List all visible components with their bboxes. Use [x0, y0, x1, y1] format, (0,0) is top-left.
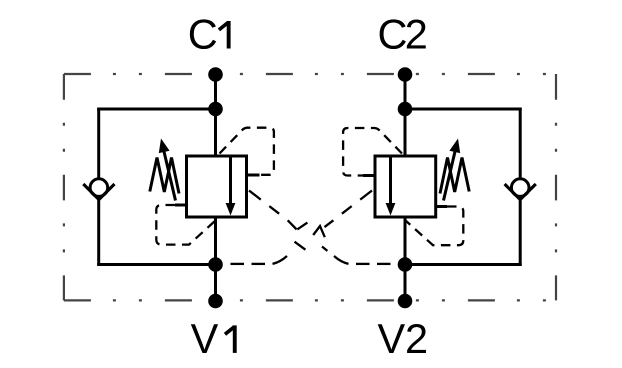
counterbalance valve body left [187, 156, 247, 217]
pilot loop left lower (dashed) [156, 205, 215, 245]
label V2 [378, 315, 429, 362]
wire left bypass vertical [97, 108, 100, 267]
port dot V2 [398, 294, 413, 309]
spring right (adjustable) [440, 139, 469, 201]
pilot stub left valve right port [247, 174, 260, 177]
wire right bypass vertical [519, 108, 522, 267]
pilot loop right lower (dashed) [406, 207, 464, 246]
svg-text:C: C [188, 11, 218, 58]
label V1 [191, 315, 237, 362]
enclosure boundary (phantom dash-dot border) [64, 74, 556, 300]
port dot C1 [208, 67, 223, 82]
junction dot V1/bypass [208, 257, 223, 272]
pilot stub right valve right port [436, 205, 448, 208]
wire C1 vertical upper [214, 75, 217, 158]
junction dot C1/bypass [208, 102, 223, 117]
crossing hop [313, 226, 325, 237]
svg-text:2: 2 [405, 315, 428, 362]
wire V2 vertical lower [404, 216, 407, 301]
junction dot C2/bypass [398, 102, 413, 117]
check valve CV1 (circle + seat) [83, 179, 114, 200]
svg-text:V: V [191, 315, 219, 362]
wire left bypass top horizontal [97, 108, 215, 111]
wire right bypass top horizontal [405, 108, 522, 111]
junction dot V2/bypass [398, 257, 413, 272]
pilot stub left valve left port [175, 204, 187, 207]
label C2 [378, 11, 428, 58]
svg-text:2: 2 [405, 11, 428, 58]
pilot loop right upper (dashed) [343, 128, 402, 176]
check valve CV2 (circle + seat) [505, 179, 536, 200]
wire left bypass bottom horizontal [97, 263, 215, 266]
pilot stub right valve left port [363, 174, 376, 177]
label C1 [188, 11, 231, 58]
flow arrow inside left valve [226, 157, 236, 216]
svg-text:C: C [378, 11, 408, 58]
wire C2 vertical upper [404, 75, 407, 158]
counterbalance valve body right [375, 156, 436, 217]
pilot loop left upper (dashed) [220, 128, 274, 175]
wire right bypass bottom horizontal [405, 263, 522, 266]
wire V1 vertical lower [214, 216, 217, 301]
svg-text:V: V [378, 315, 406, 362]
port dot C2 [398, 67, 413, 82]
cross pilot line A: left valve to V2 (dashed) [249, 191, 391, 264]
flow arrow inside right valve [386, 157, 396, 216]
spring left (adjustable) [150, 139, 179, 201]
cross pilot line B: right valve to V1 (dashed) [231, 191, 373, 264]
port dot V1 [208, 294, 223, 309]
